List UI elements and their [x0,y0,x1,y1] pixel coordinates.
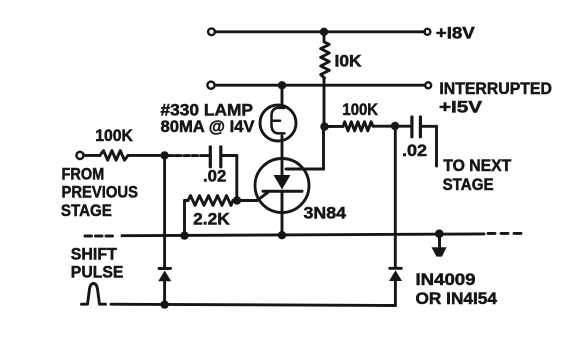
svg-text:3N84: 3N84 [304,204,347,222]
svg-text:OR IN4I54: OR IN4I54 [416,290,498,308]
svg-text:+I8V: +I8V [436,24,475,42]
svg-text:FROM: FROM [62,166,105,184]
svg-text:PREVIOUS: PREVIOUS [62,184,139,202]
svg-text:I0K: I0K [335,52,362,70]
svg-text:STAGE: STAGE [443,176,494,194]
svg-text:.02: .02 [402,142,427,160]
svg-text:+I5V: +I5V [439,98,482,116]
svg-text:100K: 100K [342,101,378,119]
svg-text:PULSE: PULSE [71,264,124,282]
svg-text:.02: .02 [203,167,226,185]
svg-text:100K: 100K [95,127,133,145]
svg-text:TO NEXT: TO NEXT [443,157,511,175]
svg-text:STAGE: STAGE [61,202,112,220]
svg-text:SHIFT: SHIFT [71,245,117,263]
svg-text:80MA @ I4V: 80MA @ I4V [161,118,255,136]
svg-text:IN4009: IN4009 [416,271,476,289]
svg-text:INTERRUPTED: INTERRUPTED [439,80,552,98]
svg-text:2.2K: 2.2K [193,210,230,228]
